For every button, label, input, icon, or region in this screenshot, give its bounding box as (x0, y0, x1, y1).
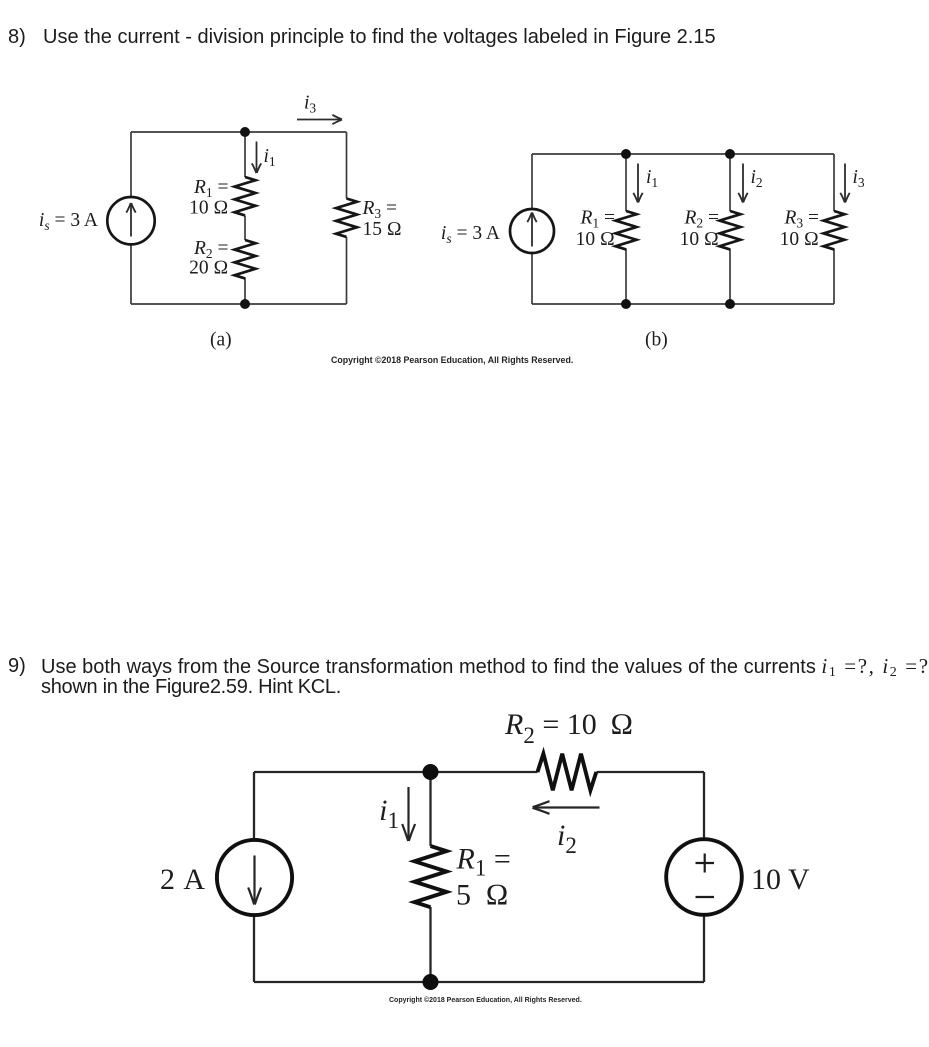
svg-text:15 Ω: 15 Ω (363, 219, 402, 240)
svg-text:i1: i1 (264, 146, 276, 169)
svg-text:10 Ω: 10 Ω (780, 229, 819, 250)
svg-text:R2 =: R2 = (683, 208, 719, 231)
svg-text:is = 3 A: is = 3 A (441, 223, 500, 246)
svg-text:10 Ω: 10 Ω (680, 229, 719, 250)
svg-text:R2 = 10 Ω: R2 = 10 Ω (504, 708, 633, 748)
svg-text:(a): (a) (210, 330, 232, 351)
svg-text:i1: i1 (646, 167, 658, 190)
svg-text:10 Ω: 10 Ω (189, 198, 228, 219)
svg-text:2 A: 2 A (160, 863, 205, 896)
svg-text:10 V: 10 V (751, 863, 810, 896)
svg-text:(b): (b) (645, 330, 668, 351)
svg-text:5 Ω: 5 Ω (456, 879, 509, 912)
svg-text:i2: i2 (557, 819, 577, 858)
svg-text:i3: i3 (304, 93, 316, 116)
svg-text:20 Ω: 20 Ω (189, 258, 228, 279)
svg-text:i1: i1 (379, 794, 399, 833)
svg-text:R1 =: R1 = (456, 843, 511, 881)
svg-text:i2: i2 (751, 167, 763, 190)
svg-text:i3: i3 (853, 167, 865, 190)
svg-text:R3 =: R3 = (783, 208, 819, 231)
svg-text:10 Ω: 10 Ω (576, 229, 615, 250)
svg-text:R3 =: R3 = (362, 198, 398, 221)
svg-text:is = 3 A: is = 3 A (39, 210, 98, 233)
svg-text:R1 =: R1 = (579, 208, 615, 231)
